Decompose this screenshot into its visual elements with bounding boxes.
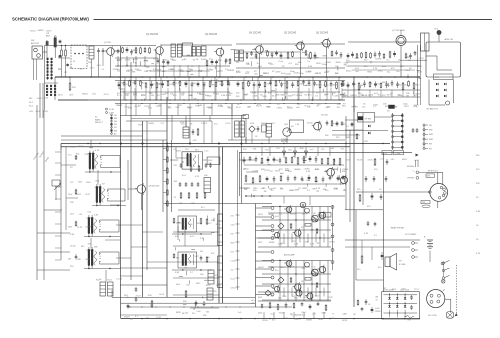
svg-text:JB1: JB1	[208, 163, 211, 165]
svg-text:1K0u: 1K0u	[294, 169, 298, 171]
svg-text:KR4: KR4	[176, 107, 180, 109]
svg-text:C111: C111	[169, 84, 173, 86]
svg-text:HEAD PHONE: HEAD PHONE	[391, 227, 405, 230]
svg-text:Ku2C: Ku2C	[231, 279, 236, 281]
svg-text:79.u0: 79.u0	[278, 61, 283, 63]
svg-text:00.06: 00.06	[333, 188, 338, 190]
svg-text:69305: 69305	[323, 85, 328, 87]
svg-text:C1R88: C1R88	[217, 106, 223, 108]
svg-text:8062: 8062	[258, 297, 262, 299]
svg-text:24u9: 24u9	[176, 284, 180, 286]
svg-text:K.1: K.1	[135, 316, 138, 318]
svg-text:8KC: 8KC	[81, 246, 85, 248]
svg-text:4805: 4805	[280, 95, 284, 97]
svg-text:7C2: 7C2	[68, 154, 71, 156]
svg-text:218: 218	[231, 216, 234, 218]
svg-text:3.3K: 3.3K	[70, 234, 75, 236]
svg-text:944: 944	[206, 312, 209, 314]
svg-text:C27: C27	[70, 182, 73, 184]
svg-text:483RK: 483RK	[269, 242, 276, 244]
svg-text:13C42: 13C42	[70, 246, 76, 248]
svg-text:244: 244	[244, 189, 247, 191]
svg-text:7K20: 7K20	[419, 58, 423, 60]
svg-text:R.223: R.223	[144, 106, 149, 108]
svg-text:7.2: 7.2	[228, 84, 231, 86]
svg-text:8uC6: 8uC6	[362, 95, 367, 97]
svg-text:27u57: 27u57	[136, 295, 141, 297]
svg-text:463C: 463C	[196, 283, 201, 285]
svg-text:47u: 47u	[275, 270, 278, 272]
svg-text:R7.4: R7.4	[141, 94, 145, 96]
svg-text:1 FM: 1 FM	[109, 109, 114, 111]
svg-text:4u8: 4u8	[292, 85, 295, 87]
svg-text:.99: .99	[375, 300, 378, 302]
svg-text:9.u: 9.u	[307, 61, 310, 63]
svg-text:9KC: 9KC	[337, 107, 341, 109]
svg-text:K2674: K2674	[329, 242, 334, 244]
svg-text:.K620: .K620	[330, 318, 335, 320]
svg-text:196.K: 196.K	[86, 182, 92, 184]
svg-text:.10: .10	[238, 123, 241, 125]
svg-text:TP-4: TP-4	[434, 29, 438, 31]
svg-text:35650: 35650	[336, 62, 341, 64]
svg-text:556: 556	[370, 94, 373, 96]
svg-text:.uuC: .uuC	[310, 149, 315, 151]
svg-text:3CK5: 3CK5	[354, 58, 359, 60]
svg-text:07147: 07147	[328, 297, 333, 299]
svg-text:u83: u83	[151, 95, 154, 97]
svg-text:1uC36: 1uC36	[116, 279, 122, 281]
svg-text:6.RR: 6.RR	[180, 122, 185, 124]
svg-text:7R33: 7R33	[373, 105, 378, 107]
svg-text:884.7: 884.7	[315, 73, 320, 75]
svg-text:4R7: 4R7	[312, 314, 315, 316]
svg-text:R3736: R3736	[316, 85, 322, 87]
svg-text:K56: K56	[153, 59, 156, 61]
svg-text:1.48: 1.48	[295, 124, 299, 126]
svg-text:91u: 91u	[404, 85, 407, 87]
svg-text:04R9R: 04R9R	[38, 30, 45, 32]
svg-text:B1 BATT 6V: B1 BATT 6V	[427, 108, 439, 111]
svg-text:7.50: 7.50	[246, 72, 250, 74]
svg-text:FM: FM	[429, 144, 432, 146]
svg-text:u472: u472	[77, 194, 81, 196]
svg-text:Kuu: Kuu	[331, 123, 334, 125]
svg-text:TONE: TONE	[395, 153, 401, 155]
svg-text:956: 956	[181, 94, 184, 96]
svg-text:7712: 7712	[265, 149, 269, 151]
svg-text:515K: 515K	[344, 62, 349, 64]
svg-text:5K9: 5K9	[274, 85, 277, 87]
svg-text:..0u2: ..0u2	[270, 314, 274, 316]
svg-text:SCHEMATIC DIAGRAM (RP0700LMW): SCHEMATIC DIAGRAM (RP0700LMW)	[12, 16, 89, 21]
svg-text:.43: .43	[290, 314, 293, 316]
svg-text:320: 320	[236, 62, 239, 64]
svg-text:ANT EXT: ANT EXT	[31, 42, 40, 45]
svg-text:LW: LW	[114, 115, 117, 117]
svg-text:KK8: KK8	[184, 83, 188, 85]
svg-text:570u1: 570u1	[231, 288, 236, 290]
svg-text:C00: C00	[186, 285, 189, 287]
svg-text:3.3K: 3.3K	[476, 211, 481, 213]
svg-text:9R28: 9R28	[367, 72, 372, 74]
svg-text:3.C3: 3.C3	[204, 151, 208, 153]
svg-text:KK4: KK4	[266, 107, 270, 109]
svg-text:SW: SW	[31, 40, 34, 42]
svg-text:4.7K: 4.7K	[364, 233, 369, 235]
svg-text:SELECT: SELECT	[95, 122, 104, 124]
svg-text:8R22: 8R22	[207, 96, 212, 98]
svg-text:Q1 2SC: Q1 2SC	[104, 42, 112, 44]
svg-text:299: 299	[292, 296, 295, 298]
svg-text:9C2: 9C2	[321, 149, 324, 151]
svg-text:510: 510	[79, 214, 82, 216]
svg-text:9KC6: 9KC6	[258, 214, 263, 216]
svg-text:Q7 2SC1000: Q7 2SC1000	[392, 30, 405, 32]
svg-text:R2C: R2C	[76, 154, 80, 156]
svg-text:5Ku0: 5Ku0	[116, 105, 120, 107]
svg-text:MW: MW	[429, 130, 433, 132]
svg-text:87uuR: 87uuR	[256, 105, 262, 107]
svg-text:K6.0: K6.0	[195, 150, 199, 152]
svg-text:C17: C17	[161, 123, 164, 125]
svg-text:3.3K: 3.3K	[94, 215, 99, 217]
svg-text:80.: 80.	[227, 107, 230, 109]
svg-text:9980: 9980	[133, 94, 137, 96]
svg-text:4453R: 4453R	[258, 267, 264, 269]
svg-text:u283u: u283u	[136, 70, 141, 72]
svg-text:4234.: 4234.	[258, 313, 263, 315]
svg-text:8608: 8608	[162, 59, 166, 61]
svg-text:4.7K: 4.7K	[316, 188, 321, 190]
svg-text:8RRRR: 8RRRR	[228, 70, 235, 72]
svg-text:5R7: 5R7	[176, 258, 179, 260]
svg-text:K24K2: K24K2	[263, 73, 269, 75]
svg-text:C1512: C1512	[231, 261, 236, 263]
svg-text:C2u7: C2u7	[301, 312, 306, 314]
svg-text:5611: 5611	[124, 295, 128, 297]
svg-text:3.627: 3.627	[256, 85, 261, 87]
svg-text:448: 448	[69, 68, 72, 70]
svg-text:R89u3: R89u3	[416, 93, 422, 95]
svg-text:3182: 3182	[288, 96, 292, 98]
svg-text:9702R: 9702R	[124, 317, 130, 319]
svg-text:47u: 47u	[209, 59, 212, 61]
svg-text:u4.5: u4.5	[251, 300, 255, 302]
svg-text:Q3 2SC945: Q3 2SC945	[205, 34, 218, 36]
svg-text:K672: K672	[315, 295, 319, 297]
svg-text:14152: 14152	[216, 285, 221, 287]
svg-text:4.7K: 4.7K	[95, 150, 100, 152]
svg-text:Q8 2SC945: Q8 2SC945	[149, 186, 161, 188]
svg-text:R3..0: R3..0	[236, 107, 241, 109]
svg-text:9497.: 9497.	[284, 318, 289, 320]
svg-text:182: 182	[383, 288, 386, 290]
svg-text:297: 297	[316, 106, 319, 108]
svg-text:6R4RK: 6R4RK	[261, 123, 268, 125]
svg-text:47088: 47088	[206, 107, 211, 109]
svg-text:126: 126	[185, 313, 188, 315]
svg-text:10u: 10u	[398, 60, 401, 62]
svg-text:1392: 1392	[167, 107, 171, 109]
svg-text:92775: 92775	[275, 171, 280, 173]
svg-text:4.7K: 4.7K	[193, 140, 198, 142]
svg-text:R5u: R5u	[96, 280, 99, 282]
svg-text:8519: 8519	[392, 289, 396, 291]
svg-text:ACH LM: ACH LM	[445, 38, 453, 41]
svg-text:R0.35: R0.35	[387, 95, 392, 97]
svg-text:1.038: 1.038	[252, 95, 257, 97]
svg-text:K2842: K2842	[325, 62, 330, 64]
svg-text:545K: 545K	[290, 266, 295, 268]
svg-text:02u: 02u	[387, 71, 390, 73]
svg-text:901: 901	[342, 85, 345, 87]
svg-text:KK8R: KK8R	[117, 59, 123, 61]
svg-text:.204: .204	[247, 107, 251, 109]
svg-text:486u7: 486u7	[280, 267, 285, 269]
svg-text:R8.3C: R8.3C	[316, 63, 322, 65]
svg-text:3.3K: 3.3K	[308, 66, 313, 68]
svg-text:u165.: u165.	[272, 188, 277, 190]
svg-text:93u4R: 93u4R	[279, 313, 285, 315]
svg-text:4u66: 4u66	[299, 83, 303, 85]
svg-text:PHONE: PHONE	[407, 178, 414, 180]
svg-text:.07: .07	[58, 68, 61, 70]
svg-text:CRCC0: CRCC0	[176, 223, 183, 225]
svg-text:u3K7: u3K7	[202, 82, 206, 84]
svg-text:2R.: 2R.	[190, 124, 193, 126]
svg-text:6474R: 6474R	[86, 227, 92, 229]
svg-text:3289: 3289	[125, 94, 129, 96]
svg-text:RR6: RR6	[218, 60, 222, 62]
svg-text:6349: 6349	[188, 95, 192, 97]
svg-text:2u872: 2u872	[341, 124, 346, 126]
svg-text:uK52K: uK52K	[290, 214, 296, 216]
svg-text:3C4u: 3C4u	[283, 83, 288, 85]
svg-text:969.: 969.	[302, 268, 306, 270]
svg-text:SP B PLUG: SP B PLUG	[428, 170, 438, 172]
svg-text:R5663: R5663	[78, 146, 84, 148]
svg-text:905: 905	[255, 74, 258, 76]
svg-text:R27: R27	[317, 243, 320, 245]
svg-text:2C5: 2C5	[214, 124, 217, 126]
svg-text:471C.: 471C.	[291, 241, 297, 243]
svg-text:K29: K29	[369, 83, 372, 85]
svg-text:RR6: RR6	[300, 148, 304, 150]
svg-text:8R3K: 8R3K	[176, 312, 181, 314]
svg-text:u3787: u3787	[275, 71, 280, 73]
svg-text:52K6: 52K6	[262, 96, 266, 98]
svg-text:460: 460	[298, 62, 301, 64]
svg-text:u0438: u0438	[268, 214, 273, 216]
svg-text:R798: R798	[133, 59, 138, 61]
svg-text:.358R: .358R	[85, 259, 91, 261]
svg-text:CR84: CR84	[277, 108, 282, 110]
svg-text:36147: 36147	[236, 72, 241, 74]
svg-text:208R5: 208R5	[302, 188, 308, 190]
svg-text:1591: 1591	[353, 95, 357, 97]
svg-text:2472: 2472	[194, 256, 198, 258]
svg-text:9242: 9242	[172, 60, 176, 62]
svg-text:R841: R841	[43, 111, 48, 113]
svg-text:984.1: 984.1	[415, 85, 420, 87]
svg-text:KRRK0: KRRK0	[375, 311, 381, 313]
svg-text:02.KK: 02.KK	[113, 69, 119, 71]
svg-text:3841: 3841	[231, 243, 235, 245]
svg-text:068: 068	[375, 297, 378, 299]
svg-text:6.3: 6.3	[315, 96, 318, 98]
svg-text:RRRRu: RRRRu	[351, 107, 358, 109]
svg-text:1C92: 1C92	[156, 317, 161, 319]
svg-text:7u0: 7u0	[125, 84, 128, 86]
svg-text:35671: 35671	[176, 151, 181, 153]
svg-text:7889: 7889	[282, 296, 286, 298]
svg-text:547: 547	[313, 213, 316, 215]
svg-text:CCC4: CCC4	[225, 123, 230, 125]
svg-text:Q9 2SC: Q9 2SC	[321, 115, 329, 117]
svg-text:Ku9: Ku9	[238, 312, 241, 314]
svg-text:48CC: 48CC	[206, 285, 211, 287]
svg-text:319: 319	[341, 148, 344, 150]
svg-text:20.: 20.	[257, 63, 260, 65]
svg-text:SW1: SW1	[429, 134, 433, 136]
svg-text:151: 151	[231, 270, 234, 272]
svg-text:C6u: C6u	[146, 317, 149, 319]
svg-text:8Ru9: 8Ru9	[324, 72, 329, 74]
svg-text:0.10K: 0.10K	[333, 95, 339, 97]
svg-text:KC14: KC14	[104, 94, 109, 96]
svg-text:4.7K: 4.7K	[310, 244, 315, 246]
svg-text:4.7K: 4.7K	[476, 253, 481, 255]
svg-text:556R6: 556R6	[148, 123, 154, 125]
svg-text:10358: 10358	[332, 85, 337, 87]
svg-text:915: 915	[267, 84, 270, 86]
svg-text:Q5 2SC945: Q5 2SC945	[284, 33, 297, 35]
svg-text:4u4: 4u4	[216, 93, 219, 95]
svg-text:62.57: 62.57	[86, 194, 91, 196]
svg-text:MW: MW	[114, 118, 117, 120]
svg-text:14u.8: 14u.8	[405, 70, 410, 72]
svg-text:0.82: 0.82	[391, 159, 395, 161]
svg-text:R0956: R0956	[343, 169, 349, 171]
svg-text:4830: 4830	[144, 60, 148, 62]
svg-text:DC POWER: DC POWER	[405, 234, 417, 236]
svg-text:K201: K201	[346, 159, 350, 161]
svg-text:uCR2: uCR2	[161, 94, 166, 96]
svg-text:76u0: 76u0	[68, 194, 72, 196]
svg-text:3Ru6: 3Ru6	[244, 168, 249, 170]
svg-text:.K4C: .K4C	[29, 111, 34, 113]
svg-text:4.4: 4.4	[335, 73, 338, 75]
svg-text:7610: 7610	[148, 295, 152, 297]
svg-text:K29: K29	[231, 252, 234, 254]
svg-text:u08: u08	[296, 107, 299, 109]
svg-text:2K6: 2K6	[255, 170, 258, 172]
svg-text:.C7R: .C7R	[303, 297, 308, 299]
svg-text:049R: 049R	[321, 312, 326, 314]
svg-text:79R18: 79R18	[262, 320, 268, 322]
svg-text:010R: 010R	[294, 73, 299, 75]
svg-text:C.u7C: C.u7C	[206, 223, 212, 225]
svg-text:97.18: 97.18	[117, 95, 122, 97]
svg-text:939: 939	[231, 234, 234, 236]
svg-text:856R8: 856R8	[306, 320, 312, 322]
svg-text:04.CR: 04.CR	[302, 213, 308, 215]
svg-text:K45: K45	[92, 93, 95, 95]
svg-text:083: 083	[406, 96, 409, 98]
svg-text:TTO 2: TTO 2	[414, 289, 419, 291]
svg-text:195C3: 195C3	[201, 123, 207, 125]
svg-text:F08: F08	[408, 320, 411, 322]
svg-text:4.7K: 4.7K	[195, 176, 200, 178]
svg-text:CR1: CR1	[253, 149, 257, 151]
svg-text:4.9uR: 4.9uR	[368, 160, 374, 162]
svg-text:59R6: 59R6	[219, 84, 224, 86]
svg-text:3K.1: 3K.1	[272, 96, 276, 98]
svg-text:.Ku5C: .Ku5C	[375, 308, 381, 310]
svg-text:36C6: 36C6	[58, 95, 63, 97]
svg-text:951: 951	[378, 94, 381, 96]
svg-text:89K.7: 89K.7	[414, 105, 419, 107]
svg-text:uC6K: uC6K	[44, 98, 49, 100]
svg-text:41R4u: 41R4u	[201, 59, 207, 61]
svg-text:47u: 47u	[357, 269, 360, 271]
svg-text:1621R: 1621R	[342, 320, 348, 322]
svg-text:Ku3: Ku3	[272, 320, 275, 322]
svg-text:7u0: 7u0	[132, 82, 135, 84]
svg-text:68104: 68104	[306, 72, 311, 74]
svg-text:uR3: uR3	[326, 107, 329, 109]
svg-text:046Ku: 046Ku	[199, 94, 204, 96]
svg-text:R093: R093	[402, 159, 407, 161]
svg-text:0u83: 0u83	[401, 289, 405, 291]
svg-text:KK8: KK8	[244, 94, 248, 96]
svg-text:K45: K45	[236, 96, 239, 98]
svg-text:5C8: 5C8	[334, 169, 337, 171]
svg-text:3.3K: 3.3K	[200, 238, 205, 240]
svg-text:58uu: 58uu	[342, 106, 346, 108]
svg-text:8C.C1: 8C.C1	[305, 105, 310, 107]
svg-text:3u9: 3u9	[355, 71, 358, 73]
svg-text:2C129: 2C129	[226, 95, 232, 97]
svg-text:SW: SW	[114, 121, 117, 123]
svg-text:.3u90: .3u90	[314, 169, 319, 171]
svg-text:Ru21: Ru21	[107, 279, 112, 281]
svg-text:C77u: C77u	[226, 60, 231, 62]
svg-text:55.2R: 55.2R	[77, 227, 83, 229]
svg-text:825R0: 825R0	[396, 85, 402, 87]
svg-text:K1721: K1721	[357, 159, 362, 161]
svg-text:94.7: 94.7	[272, 123, 276, 125]
svg-text:3.3K: 3.3K	[306, 171, 311, 173]
svg-text:C6.29: C6.29	[159, 294, 164, 296]
svg-text:.23K0: .23K0	[252, 188, 257, 190]
svg-text:2932: 2932	[258, 242, 262, 244]
svg-text:800K: 800K	[385, 106, 390, 108]
svg-text:289: 289	[29, 98, 32, 100]
svg-text:u1KR0: u1KR0	[304, 168, 310, 170]
svg-text:.8.5: .8.5	[380, 159, 383, 161]
svg-text:AN214 AMP: AN214 AMP	[284, 253, 296, 256]
svg-text:R8459: R8459	[82, 93, 88, 95]
svg-text:u7.: u7.	[185, 256, 188, 258]
svg-text:31R33: 31R33	[125, 60, 131, 62]
svg-text:2.631: 2.631	[156, 106, 161, 108]
svg-text:7.1: 7.1	[332, 313, 335, 315]
svg-text:KK9: KK9	[69, 95, 73, 97]
svg-text:SP SW: SP SW	[365, 119, 372, 121]
svg-text:8 OHM: 8 OHM	[399, 264, 406, 266]
